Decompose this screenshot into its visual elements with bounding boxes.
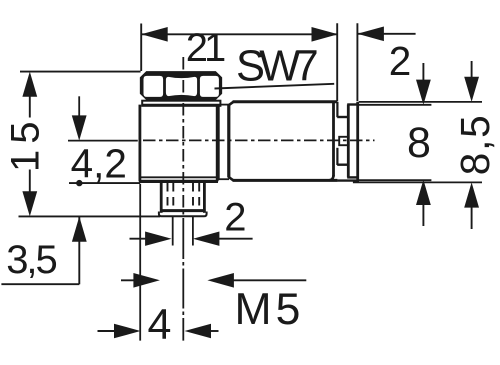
stud bore dashed line left — [172, 183, 174, 209]
horizontal centerline — [143, 139, 375, 141]
sleeve left bottom chamfer — [228, 177, 233, 181]
release ring right edge — [356, 102, 359, 181]
dim 2 top extension line right — [356, 23, 358, 101]
svg-text:2: 2 — [389, 38, 412, 84]
dim M5 leader tails — [121, 279, 138, 281]
hex right facet white panel — [200, 76, 219, 97]
dim 2 bottom extension line right — [192, 217, 194, 246]
svg-text:SW7: SW7 — [236, 43, 316, 91]
dim 4 dimension line tails — [98, 330, 119, 332]
arrow 15 up — [22, 72, 37, 97]
svg-text:2: 2 — [224, 195, 246, 239]
dim 4 extension line — [139, 184, 141, 341]
arrow M5 left — [133, 273, 160, 288]
sleeve cylinder left end face — [227, 105, 230, 178]
arrow 21 right — [312, 27, 339, 42]
svg-text:4: 4 — [148, 301, 172, 349]
dim 8,5 top extension line — [359, 101, 482, 103]
dim 2 top dimension line — [357, 33, 415, 35]
stud end cap — [159, 212, 207, 217]
threaded stud right wall — [203, 181, 206, 212]
vertical centerline — [182, 57, 184, 219]
body square block left edge — [138, 105, 141, 182]
release ring left edge — [347, 105, 350, 178]
hex middle facet white panel — [166, 77, 197, 96]
dim 8 arrow tails — [422, 63, 424, 81]
stud bore dashed line right — [192, 183, 194, 209]
dim 2 top extension line left — [336, 23, 338, 101]
dim 2 bottom dimension line tails — [130, 238, 151, 240]
body bottom edge thick — [139, 180, 218, 183]
dim 3,5 leader horizontal — [1, 283, 79, 285]
svg-text:21: 21 — [186, 26, 225, 70]
arrow M5 right — [207, 273, 234, 288]
sleeve left top chamfer — [228, 102, 233, 106]
groove top floor — [337, 116, 348, 118]
neck between body and sleeve — [218, 105, 220, 180]
arrow 4 left — [114, 324, 141, 339]
stud bottom edge thick — [160, 209, 206, 212]
arrow 3,5 up — [72, 217, 87, 242]
sleeve bottom edge — [233, 179, 338, 182]
dim 4,2 top extension line — [68, 140, 138, 142]
leader SW7 — [215, 84, 335, 89]
arrow 8,5 top — [464, 77, 479, 102]
release ring top edge — [347, 103, 359, 105]
sleeve top edge — [233, 100, 338, 103]
groove bottom floor — [337, 163, 348, 165]
dim 15 bottom extension line — [19, 215, 161, 217]
body bottom inner thin line — [141, 176, 218, 178]
arrow 2 top — [357, 27, 384, 42]
release ring bottom edge — [347, 176, 359, 178]
dim 8 bottom extension line — [359, 179, 432, 181]
collar bottom thick line — [142, 104, 221, 107]
groove left wall upper — [336, 102, 338, 117]
arrow 15 down — [22, 191, 37, 216]
dim 4,2 leader line — [69, 182, 140, 184]
dim 21 left extension line — [140, 24, 142, 72]
sleeve right end face bottom fillet — [329, 175, 333, 180]
dot 4,2 — [76, 180, 82, 186]
dim 8 top extension line — [359, 104, 432, 106]
dim 8,5 arrow tails — [471, 61, 473, 78]
arrow 8,5 bottom — [464, 182, 479, 207]
svg-text:3,5: 3,5 — [6, 238, 56, 282]
arrow 8 bottom — [416, 180, 431, 205]
dim 15 top extension line — [20, 71, 141, 73]
arrow 8 top — [416, 80, 431, 105]
svg-text:4,2: 4,2 — [71, 141, 127, 187]
svg-text:8: 8 — [407, 119, 431, 167]
hex nut SW7 outline filled dark — [141, 73, 221, 99]
vertical centerline solid lower part — [182, 219, 184, 341]
svg-text:M5: M5 — [235, 285, 305, 334]
arrow 4,2 down — [72, 115, 87, 140]
arrow 2 bottom right — [193, 232, 220, 246]
arrow 4 right — [185, 324, 212, 339]
dim 2 bottom extension line left — [172, 217, 174, 246]
svg-text:8,5: 8,5 — [452, 113, 498, 175]
groove left wall lower — [336, 148, 338, 165]
stud thread dashed line left — [167, 183, 169, 209]
bottom edge piece under groove and ring — [337, 179, 359, 181]
center box in groove — [339, 137, 348, 145]
dim 3,5 leader vertical — [78, 217, 80, 284]
dim 8,5 bottom extension line — [353, 181, 482, 183]
sleeve right end face — [332, 102, 335, 177]
threaded stud M5 left wall — [160, 181, 163, 212]
collar washer under hex — [142, 101, 220, 106]
body square block right edge — [216, 105, 219, 182]
stud thread dashed line right — [198, 183, 200, 209]
dim 21 dimension line — [141, 33, 338, 35]
arrow 21 left — [141, 27, 168, 42]
dim 15 dimension line segments — [29, 96, 31, 118]
svg-text:15: 15 — [4, 116, 48, 173]
arrow 2 bottom left — [145, 232, 172, 246]
hex left facet white panel — [144, 76, 164, 97]
dim 4,2 down arrow tail — [78, 96, 80, 116]
